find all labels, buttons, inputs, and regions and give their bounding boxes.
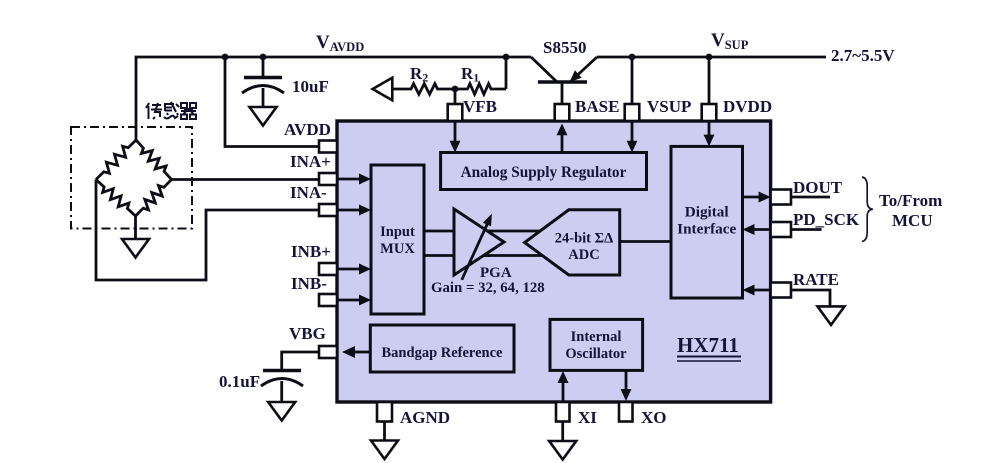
svg-text:PGA: PGA <box>480 265 512 281</box>
label R2 <box>410 64 428 85</box>
svg-text:MUX: MUX <box>380 241 415 257</box>
wire V_SUP rail <box>597 56 826 59</box>
pin INB+ <box>319 263 337 275</box>
wire bridge left vertex to INA- <box>96 180 319 281</box>
ground below XI <box>549 441 576 460</box>
arrow DOUT out of digital interface <box>743 192 771 203</box>
pin VFB <box>448 104 463 121</box>
svg-text:BASE: BASE <box>575 97 619 116</box>
label 2.7~5.5V <box>831 46 895 65</box>
label HX711 with double underline <box>677 333 741 361</box>
wire VBG to 0.1uF <box>282 352 319 369</box>
svg-text:Analog Supply Regulator: Analog Supply Regulator <box>461 164 627 181</box>
capacitor C1 10uF <box>242 57 284 107</box>
svg-text:Bandgap Reference: Bandgap Reference <box>382 345 504 361</box>
wire ADC to digital interface <box>620 240 671 243</box>
pin VBG <box>319 346 337 358</box>
arrow INA- into MUX <box>337 205 371 216</box>
label 0.1uF <box>219 372 260 391</box>
svg-text:XI: XI <box>578 408 597 427</box>
label XO <box>641 408 667 427</box>
block Internal Oscillator <box>550 319 643 370</box>
transistor Q1 S8550 collector <box>531 57 557 82</box>
label VSUP <box>647 97 691 116</box>
ground below 10uF <box>250 107 277 126</box>
label BASE <box>575 97 619 116</box>
wire DOUT stub <box>791 196 830 199</box>
svg-text:AGND: AGND <box>400 408 450 427</box>
pin AGND <box>377 402 392 422</box>
wire MUX to PGA lower <box>424 254 490 257</box>
svg-text:Oscillator: Oscillator <box>565 346 627 362</box>
arrow XI into oscillator <box>558 371 569 402</box>
node junction dot VSUP branch <box>629 54 636 61</box>
op-amp PGA triangle <box>454 209 504 275</box>
wire R1 to V_AVDD rail <box>505 57 508 89</box>
label INB- <box>291 274 327 293</box>
label DVDD <box>723 97 772 116</box>
wire XI to ground <box>561 422 564 442</box>
PGA gain arrow <box>462 214 492 280</box>
svg-text:HX711: HX711 <box>677 333 739 357</box>
wire VSUP pin stem <box>631 57 634 104</box>
capacitor C2 0.1uF <box>261 371 303 403</box>
pin BASE <box>555 104 570 121</box>
label XI <box>578 408 597 427</box>
arrow INA+ into MUX <box>337 174 371 185</box>
block Input MUX <box>371 165 424 314</box>
svg-text:24-bit ΣΔ: 24-bit ΣΔ <box>555 231 613 247</box>
pin INB- <box>319 294 337 306</box>
arrow XO out of oscillator <box>621 370 632 401</box>
block Digital Interface <box>671 146 743 298</box>
main chip block HX711 <box>337 121 771 402</box>
svg-text:S8550: S8550 <box>543 38 586 57</box>
svg-text:0.1uF: 0.1uF <box>219 372 260 391</box>
node junction dot AVDD drop <box>222 54 229 61</box>
svg-text:INB+: INB+ <box>291 242 331 261</box>
resistor R2 <box>392 84 455 95</box>
wire AGND to ground <box>383 422 386 441</box>
svg-text:Digital: Digital <box>685 204 729 221</box>
pin AVDD <box>319 141 337 153</box>
node junction dot 10uF branch <box>260 54 267 61</box>
wire PGA to ADC upper <box>480 230 545 233</box>
svg-text:VFB: VFB <box>463 97 497 116</box>
label INB+ <box>291 242 331 261</box>
wire AVDD branch <box>225 57 319 147</box>
wheatstone bridge resistor top-right <box>136 140 172 180</box>
wire PD_SCK stub <box>791 228 822 231</box>
label MCU <box>892 211 933 230</box>
svg-text:VSUP: VSUP <box>647 97 691 116</box>
svg-text:XO: XO <box>641 408 667 427</box>
label V_AVDD <box>316 32 364 54</box>
transistor Q1 base lead <box>561 82 564 104</box>
svg-text:RATE: RATE <box>793 270 839 289</box>
svg-text:10uF: 10uF <box>292 77 329 96</box>
pin VSUP <box>625 104 640 121</box>
label 10uF <box>292 77 329 96</box>
adc block 24-bit sigma-delta <box>525 210 620 275</box>
arrow VSUP into regulator <box>627 121 638 153</box>
ground below RATE <box>818 306 845 325</box>
label S8550 <box>543 38 586 57</box>
node junction dot VFB/R1 branch <box>503 54 510 61</box>
svg-text:VBG: VBG <box>289 324 326 343</box>
wire bridge bottom to ground <box>134 216 137 239</box>
wheatstone bridge resistor bottom-right <box>136 180 172 217</box>
arrow RATE into digital interface <box>743 285 771 296</box>
svg-text:MCU: MCU <box>892 211 933 230</box>
svg-text:Interface: Interface <box>677 221 736 238</box>
pin INA- <box>319 204 337 216</box>
wheatstone bridge resistor bottom-left <box>96 180 136 217</box>
label PGA <box>480 265 512 281</box>
arrow DVDD into digital interface <box>704 121 715 146</box>
wheatstone bridge resistor top-left <box>96 140 136 180</box>
pin RATE <box>771 283 791 298</box>
svg-text:To/From: To/From <box>879 191 942 210</box>
wire MUX to PGA upper <box>424 230 490 233</box>
wire RATE stub to ground <box>791 290 830 306</box>
brace to MCU <box>862 177 873 242</box>
label V_SUP <box>711 30 749 52</box>
svg-text:DOUT: DOUT <box>793 178 843 197</box>
svg-text:DVDD: DVDD <box>723 97 772 116</box>
label INA- <box>290 183 327 202</box>
label Gain = 32, 64, 128 <box>431 280 545 296</box>
arrow Bandgap to VBG <box>342 346 370 358</box>
transistor Q1 S8550 base bar <box>538 80 587 84</box>
pin DVDD <box>702 104 717 121</box>
wire V_AVDD rail <box>136 57 531 142</box>
svg-text:Input: Input <box>380 224 415 240</box>
block Analog Supply Regulator <box>441 153 647 190</box>
ground below AGND <box>371 441 398 460</box>
label INA+ <box>290 152 331 171</box>
svg-text:PD_SCK: PD_SCK <box>793 210 860 229</box>
arrow PD_SCK into digital interface <box>743 224 771 235</box>
ground below 0.1uF <box>268 402 295 421</box>
label VFB <box>463 97 497 116</box>
svg-text:Gain = 32, 64, 128: Gain = 32, 64, 128 <box>431 280 545 296</box>
pin XO <box>619 402 633 422</box>
node junction dot VFB <box>452 86 459 93</box>
svg-text:INA-: INA- <box>290 183 327 202</box>
svg-text:2.7~5.5V: 2.7~5.5V <box>831 46 895 65</box>
svg-text:INB-: INB- <box>291 274 327 293</box>
sensor dashed box 传感器 <box>71 127 192 229</box>
wire DVDD pin stem <box>708 57 711 104</box>
wire bridge right vertex to INA+ <box>172 178 320 181</box>
pin PD_SCK <box>771 222 791 237</box>
wire PGA to ADC lower <box>478 254 545 257</box>
svg-text:INA+: INA+ <box>290 152 331 171</box>
label RATE <box>793 270 839 289</box>
node junction dot DVDD branch <box>706 54 713 61</box>
arrow INB- into MUX <box>337 295 371 306</box>
label AVDD <box>284 120 331 139</box>
label 传感器 (drawn glyphs) <box>146 102 196 119</box>
label PD_SCK <box>793 210 860 229</box>
pin DOUT <box>771 190 791 205</box>
block Bandgap Reference <box>370 325 514 372</box>
arrow VFB into regulator <box>450 121 461 153</box>
ground below bridge <box>122 239 149 258</box>
svg-text:Internal: Internal <box>571 329 622 345</box>
arrow INB+ into MUX <box>337 264 371 275</box>
pin XI <box>556 402 570 422</box>
ground-arrow left reference for R2 <box>373 78 393 101</box>
wire VFB pin stem <box>454 89 457 104</box>
resistor R1 <box>456 84 507 95</box>
label To/From <box>879 191 942 210</box>
label DOUT <box>793 178 843 197</box>
svg-text:AVDD: AVDD <box>284 120 331 139</box>
label AGND <box>400 408 450 427</box>
svg-text:ADC: ADC <box>568 247 599 263</box>
arrow BASE out of regulator <box>557 124 568 153</box>
pin INA+ <box>319 173 337 185</box>
label VBG <box>289 324 326 343</box>
transistor Q1 S8550 emitter with arrow <box>570 57 598 82</box>
label R1 <box>461 64 479 85</box>
